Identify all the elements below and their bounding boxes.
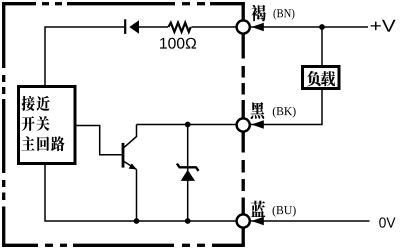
wire load to BK line (250, 90, 322, 125)
label (BN) (273, 9, 276, 20)
node junction dot emitter on 0V rail (134, 218, 140, 224)
node junction dot on +V line (319, 24, 325, 30)
wire from block top to diode (45, 27, 124, 85)
transistor Q1 base bar (122, 143, 125, 168)
sensor enclosure dashed outline (right edge through terminals) (242, 2, 245, 245)
transistor Q1 collector (124, 125, 137, 148)
label 负载 (307, 71, 321, 86)
wire emitter down to 0V rail (136, 169, 138, 221)
protection diode D1 (cathode bar) (124, 19, 126, 34)
label 蓝 (251, 201, 266, 217)
terminal BU circle (237, 214, 250, 227)
label 主回路 (line 3 of block text) (22, 136, 35, 150)
+V supply wire (249, 26, 368, 28)
label 开关 (line 2 of block text) (22, 116, 35, 131)
wire collector to BK terminal (137, 124, 238, 126)
wire diode to resistor (139, 26, 168, 28)
label (BU) (273, 206, 276, 217)
wire zener branch (BK line to 0V rail) (187, 125, 189, 222)
label 褐 (251, 5, 266, 22)
label 黑 (251, 102, 265, 119)
label (BK) (273, 107, 276, 118)
value label 100Ω (160, 38, 167, 49)
node junction dot zener top (185, 122, 191, 128)
0V wire (249, 220, 370, 222)
sensor enclosure dashed outline (bottom edge) (2, 244, 245, 247)
resistor R1 zigzag (168, 23, 190, 32)
load box 负载 (303, 67, 340, 89)
transistor Q1 emitter with arrow (124, 161, 137, 169)
terminal BK circle (237, 118, 250, 131)
arrow into BK terminal (252, 120, 264, 129)
proximity switch main circuit block (19, 87, 76, 164)
label 接近 (line 1 of block text) (22, 96, 35, 111)
sensor enclosure dashed outline (left edge) (2, 2, 5, 247)
sensor enclosure dashed outline (top edge) (2, 2, 245, 5)
arrow into BN terminal (252, 23, 264, 32)
wire block bottom to 0V rail (45, 165, 237, 221)
arrow into BU terminal (252, 217, 264, 226)
label +V (371, 22, 381, 30)
zener diode ZD1 cathode bar with bent ends (177, 164, 199, 171)
zener diode ZD1 triangle (181, 170, 195, 181)
label 0V (379, 217, 386, 227)
wire junction to load (321, 27, 323, 66)
terminal BN circle (237, 20, 250, 33)
protection diode D1 (arrow pointing left) (129, 20, 139, 34)
wire block output to transistor base (75, 126, 122, 155)
wire resistor to BN terminal (192, 26, 238, 28)
node junction dot zener bottom (185, 218, 191, 224)
